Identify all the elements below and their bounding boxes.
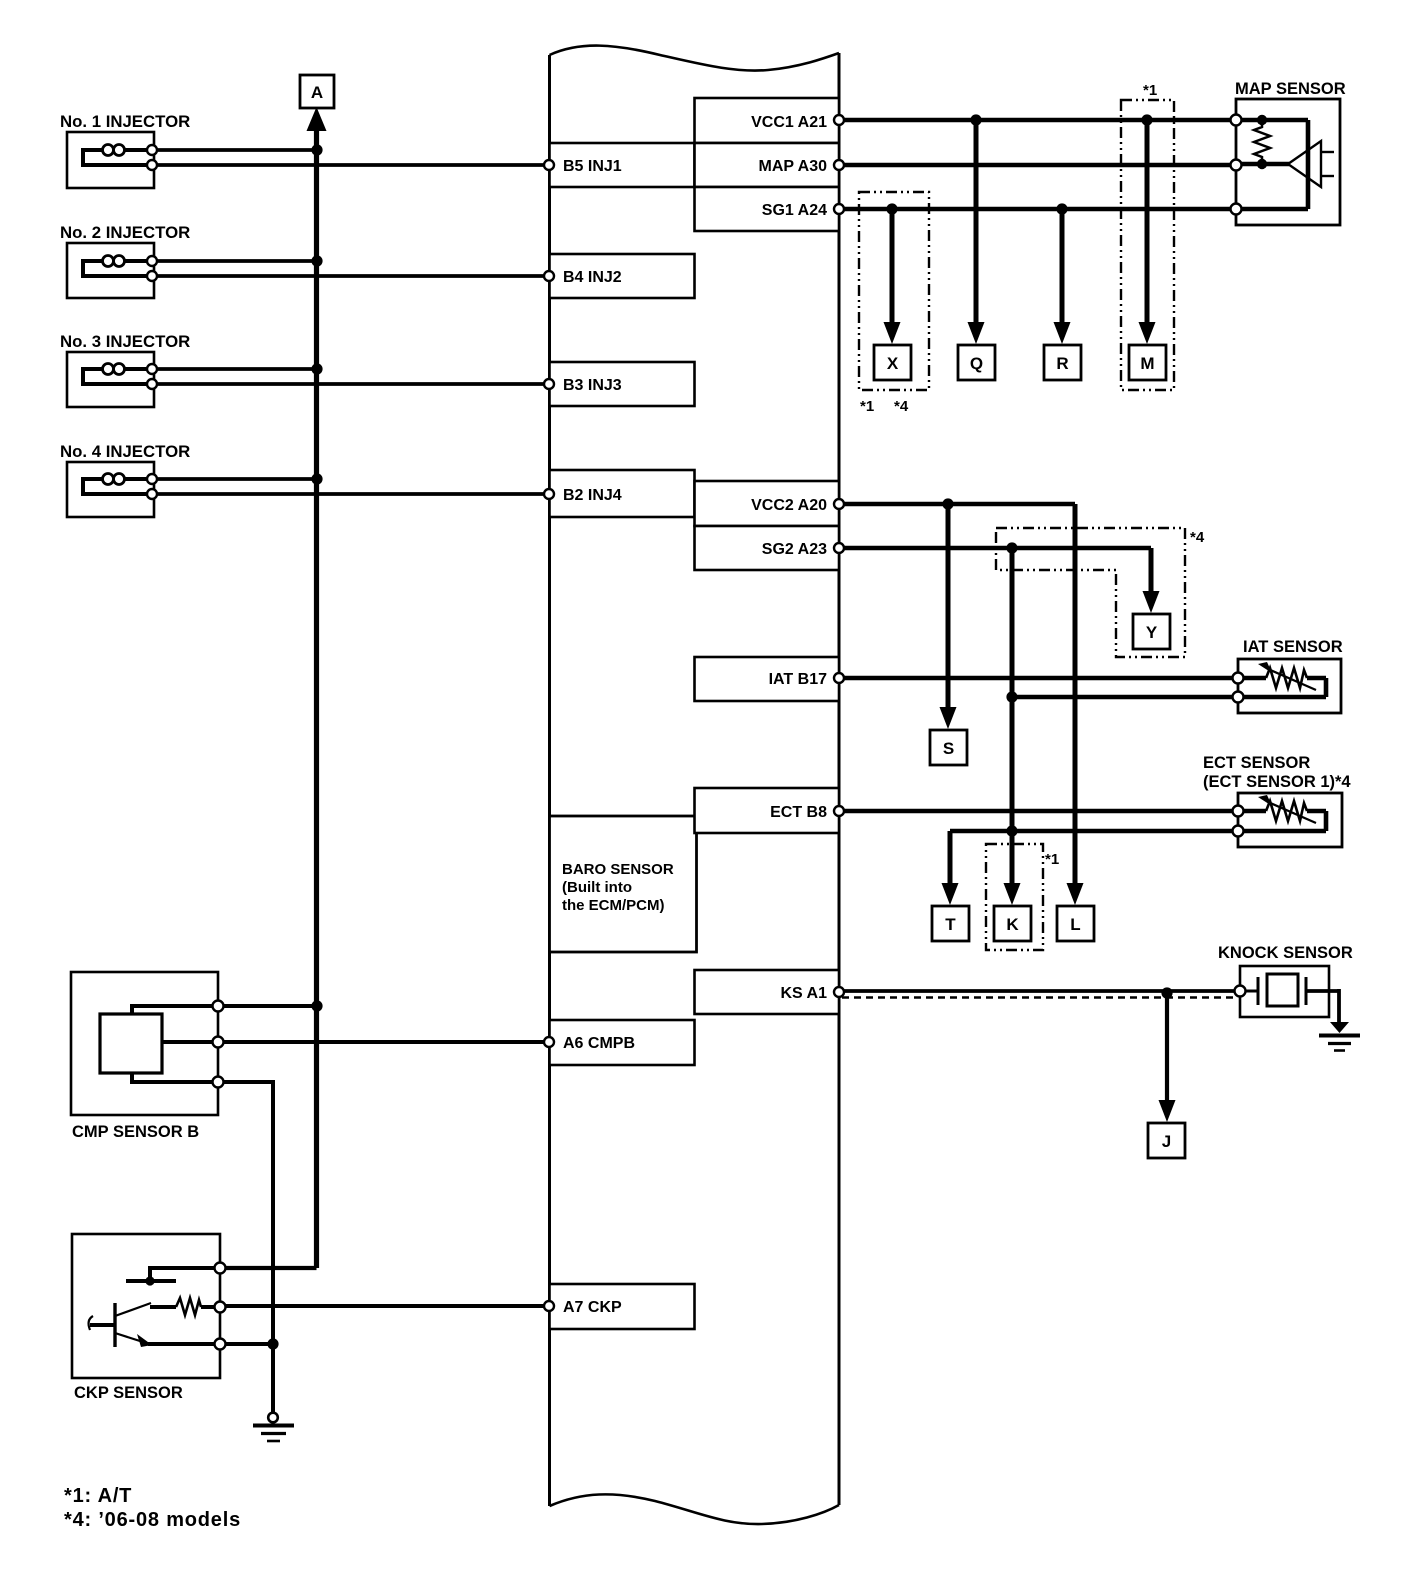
- pin ECT sensor bottom: [1233, 826, 1244, 837]
- wire ECT sensor return: [950, 829, 1238, 834]
- junction SG1 / R branch: [1056, 203, 1067, 214]
- pin injector 2 bottom: [147, 271, 157, 281]
- connector box B5 INJ1: [550, 143, 695, 187]
- injector 3: [67, 352, 154, 407]
- arrow into K: [1004, 883, 1021, 905]
- label *4 under X box: [894, 398, 909, 415]
- svg-text:*4: *4: [1190, 529, 1205, 546]
- wire IAT B17 to IAT sensor: [839, 676, 1238, 681]
- svg-text:J: J: [1162, 1132, 1171, 1151]
- pin SG2 A23: [834, 543, 844, 553]
- ground (knock sensor): [1319, 1022, 1360, 1051]
- junction A bus / injector 2: [311, 255, 322, 266]
- ECT sensor label: [1203, 754, 1351, 791]
- pin IAT sensor bottom: [1233, 692, 1244, 703]
- pin KS A1: [834, 987, 844, 997]
- pin CMP top: [213, 1001, 224, 1012]
- wire IAT sensor return to K branch: [1012, 695, 1238, 700]
- wire CMP bottom to ground line: [218, 1082, 273, 1344]
- svg-text:SG2 A23: SG2 A23: [762, 541, 827, 558]
- ECM/PCM band left edge: [548, 55, 551, 1506]
- svg-text:No. 2 INJECTOR: No. 2 INJECTOR: [60, 223, 190, 242]
- wire ground line to ground symbol: [271, 1344, 275, 1413]
- CKP SENSOR label: [74, 1384, 183, 1402]
- injector 4: [67, 462, 154, 517]
- IAT sensor: [1238, 659, 1341, 713]
- label *1 above M box: [1143, 82, 1157, 99]
- junction ECT return / K branch: [1006, 825, 1017, 836]
- svg-text:*1: *1: [1045, 851, 1059, 868]
- arrow into R: [1054, 322, 1071, 344]
- pin B2 INJ4: [544, 489, 554, 499]
- pin injector 2 top: [147, 256, 157, 266]
- junction SG2 / K branch: [1006, 542, 1017, 553]
- pin B3 INJ3: [544, 379, 554, 389]
- connector box IAT B17: [695, 657, 840, 701]
- svg-text:VCC2 A20: VCC2 A20: [751, 497, 827, 514]
- CMP SENSOR B label: [72, 1123, 199, 1141]
- wire SG2 A23 horizontal: [839, 546, 1151, 551]
- injector 4 label: [60, 442, 190, 461]
- pin CKP middle: [215, 1302, 226, 1313]
- wire M branch vertical: [1145, 120, 1150, 324]
- pin VCC2 A20: [834, 499, 844, 509]
- wire injector 3 top to node A: [152, 367, 318, 371]
- connector ref box X: [874, 345, 911, 380]
- junction A bus / CMP sensor wire: [311, 1000, 322, 1011]
- svg-text:K: K: [1006, 915, 1019, 934]
- injector 2 label: [60, 223, 190, 242]
- connector ref box L: [1057, 906, 1094, 941]
- wire injector 2 top to node A: [152, 259, 318, 263]
- arrow into X: [884, 322, 901, 344]
- MAP sensor: [1236, 99, 1340, 225]
- arrow into Y: [1143, 591, 1160, 613]
- connector box VCC2 A20: [695, 481, 840, 526]
- svg-text:R: R: [1056, 354, 1068, 373]
- label *4 right of dash-dot outline: [1190, 529, 1205, 546]
- wire Y branch vertical: [1149, 548, 1154, 592]
- svg-text:A6 CMPB: A6 CMPB: [563, 1035, 635, 1052]
- connector ref box Q: [958, 345, 995, 380]
- connector box B3 INJ3: [550, 362, 695, 406]
- arrow into S: [940, 707, 957, 729]
- dash-dot outline *4 around Y: [996, 528, 1185, 657]
- connector box MAP A30: [695, 143, 840, 187]
- wire L branch vertical: [1073, 504, 1078, 883]
- ECM/PCM band torn bottom edge: [550, 1494, 840, 1524]
- arrow into T: [942, 883, 959, 905]
- connector ref box A: [300, 75, 334, 108]
- wire CMP top to node A bus: [218, 1004, 317, 1008]
- svg-text:IAT B17: IAT B17: [769, 671, 827, 688]
- injector 1: [67, 132, 154, 188]
- wire injector 4 to B2 INJ4: [152, 492, 549, 496]
- pin A6 CMPB: [544, 1037, 554, 1047]
- ECM/PCM band torn top edge: [550, 46, 840, 71]
- note *1: A/T: [64, 1485, 132, 1507]
- svg-text:X: X: [887, 354, 899, 373]
- resistor in MAP sensor: [1254, 120, 1270, 164]
- svg-text:(Built into: (Built into: [562, 879, 632, 896]
- pin IAT sensor top: [1233, 673, 1244, 684]
- pin B4 INJ2: [544, 271, 554, 281]
- connector box SG2 A23: [695, 526, 840, 570]
- junction A bus / injector 1: [311, 144, 322, 155]
- pin MAP sensor MAP: [1231, 160, 1242, 171]
- svg-text:BARO SENSOR: BARO SENSOR: [562, 861, 674, 878]
- wire Q branch vertical: [974, 120, 979, 324]
- injector 3 label: [60, 332, 190, 351]
- pin MAP sensor VCC1: [1231, 115, 1242, 126]
- svg-text:*4: *4: [894, 398, 909, 415]
- junction A bus / injector 4: [311, 473, 322, 484]
- wire CKP middle to A7 CKP: [220, 1304, 549, 1308]
- pin SG1 A24: [834, 204, 844, 214]
- svg-text:VCC1 A21: VCC1 A21: [751, 114, 827, 131]
- wire injector 2 to B4 INJ2: [152, 274, 549, 278]
- svg-text:IAT SENSOR: IAT SENSOR: [1243, 638, 1343, 656]
- injector 2: [67, 243, 154, 298]
- pin CMP bottom: [213, 1077, 224, 1088]
- svg-text:B5 INJ1: B5 INJ1: [563, 158, 622, 175]
- pin CKP bottom: [215, 1339, 226, 1350]
- junction VCC1 / M branch: [1141, 114, 1152, 125]
- svg-text:B3 INJ3: B3 INJ3: [563, 377, 622, 394]
- svg-text:MAP A30: MAP A30: [759, 158, 828, 175]
- connector box A7 CKP: [550, 1284, 695, 1329]
- junction VCC1 / Q branch: [970, 114, 981, 125]
- pin ECT B8: [834, 806, 844, 816]
- junction MAP resistor bottom: [1257, 159, 1267, 169]
- CMP sensor B: [71, 972, 218, 1115]
- pin VCC1 A21: [834, 115, 844, 125]
- connector ref box K: [994, 906, 1031, 941]
- connector box B4 INJ2: [550, 254, 695, 298]
- wire CKP bottom to ground line: [220, 1342, 273, 1346]
- connector ref box R: [1044, 345, 1081, 380]
- ground (CKP circuit): [253, 1413, 294, 1441]
- svg-text:M: M: [1140, 354, 1154, 373]
- wire CMP middle to A6 CMPB: [218, 1040, 549, 1044]
- junction SG1 / X branch: [886, 203, 897, 214]
- svg-text:B4 INJ2: B4 INJ2: [563, 269, 622, 286]
- svg-text:*1: A/T: *1: A/T: [64, 1485, 132, 1507]
- svg-text:*4: ’06-08 models: *4: ’06-08 models: [64, 1509, 241, 1531]
- svg-text:B2 INJ4: B2 INJ4: [563, 487, 622, 504]
- wire T branch vertical: [948, 831, 953, 883]
- wire S branch vertical: [946, 504, 951, 709]
- svg-text:No. 1 INJECTOR: No. 1 INJECTOR: [60, 112, 190, 131]
- pin IAT B17: [834, 673, 844, 683]
- label *1 under X box: [860, 398, 874, 415]
- dash-dot box around K: [986, 844, 1043, 950]
- connector box SG1 A24: [695, 187, 840, 231]
- note *4: '06-08 models: [64, 1509, 241, 1531]
- svg-text:*1: *1: [1143, 82, 1157, 99]
- knock sensor: [1240, 966, 1339, 1017]
- wire injector 1 to B5 INJ1: [152, 163, 549, 167]
- svg-text:Y: Y: [1146, 623, 1158, 642]
- junction MAP resistor top: [1257, 115, 1267, 125]
- wire MAP A30 to MAP sensor: [839, 163, 1236, 168]
- svg-text:SG1 A24: SG1 A24: [762, 202, 827, 219]
- connector box A6 CMPB: [550, 1020, 695, 1065]
- CKP sensor: [72, 1234, 220, 1378]
- svg-text:(ECT SENSOR 1)*4: (ECT SENSOR 1)*4: [1203, 773, 1351, 791]
- label *1 beside K box: [1045, 851, 1059, 868]
- pin B5 INJ1: [544, 160, 554, 170]
- junction VCC2 / S branch: [942, 498, 953, 509]
- junction A bus / injector 3: [311, 363, 322, 374]
- svg-text:No. 4 INJECTOR: No. 4 INJECTOR: [60, 442, 190, 461]
- pin injector 1 top: [147, 145, 157, 155]
- pin CKP top: [215, 1263, 226, 1274]
- arrow up into A: [307, 107, 327, 131]
- ECT sensor: [1238, 793, 1342, 847]
- wire KS A1 to knock sensor (shielded, solid): [839, 989, 1240, 993]
- svg-text:L: L: [1070, 915, 1080, 934]
- pin MAP sensor SG1: [1231, 204, 1242, 215]
- dash-dot box around M branch: [1121, 100, 1174, 390]
- svg-text:T: T: [945, 915, 956, 934]
- pin A7 CKP: [544, 1301, 554, 1311]
- pin injector 3 top: [147, 364, 157, 374]
- pin injector 3 bottom: [147, 379, 157, 389]
- IAT sensor label: [1243, 638, 1343, 656]
- svg-text:ECT SENSOR: ECT SENSOR: [1203, 754, 1310, 772]
- junction KS wire / J branch: [1161, 987, 1172, 998]
- wire injector 4 top to node A: [152, 477, 318, 481]
- wire VCC1 A21 to MAP sensor: [839, 118, 1236, 123]
- connector ref box Y: [1133, 614, 1170, 649]
- svg-text:CMP SENSOR B: CMP SENSOR B: [72, 1123, 199, 1141]
- svg-text:A7 CKP: A7 CKP: [563, 1299, 622, 1316]
- wire node A vertical bus: [314, 126, 319, 1268]
- wire J branch vertical: [1165, 993, 1169, 1100]
- amplifier triangle in MAP sensor: [1288, 141, 1334, 187]
- wire R branch vertical: [1060, 209, 1065, 324]
- pin injector 4 top: [147, 474, 157, 484]
- svg-text:A: A: [311, 83, 323, 102]
- pin injector 1 bottom: [147, 160, 157, 170]
- connector ref box J: [1148, 1123, 1185, 1158]
- pin MAP A30: [834, 160, 844, 170]
- ECM/PCM band right edge: [838, 53, 841, 1505]
- arrow into M: [1139, 322, 1156, 344]
- dash-dot box around X branch: [859, 192, 929, 390]
- arrow into J: [1159, 1100, 1176, 1122]
- svg-text:MAP SENSOR: MAP SENSOR: [1235, 80, 1346, 98]
- wire X branch vertical: [890, 209, 895, 324]
- connector ref box T: [932, 906, 969, 941]
- wire injector 3 to B3 INJ3: [152, 382, 549, 386]
- wire ECT B8 to ECT sensor: [839, 809, 1238, 814]
- wire knock sensor to ground: [1337, 989, 1341, 1023]
- svg-text:CKP SENSOR: CKP SENSOR: [74, 1384, 183, 1402]
- wire VCC2 A20 horizontal: [839, 502, 1075, 507]
- wire SG1 A24 to MAP sensor: [839, 207, 1236, 212]
- svg-text:KS A1: KS A1: [780, 985, 827, 1002]
- arrow into L: [1067, 883, 1084, 905]
- injector 1 label: [60, 112, 190, 131]
- connector box KS A1: [695, 970, 840, 1014]
- pin injector 4 bottom: [147, 489, 157, 499]
- svg-text:ECT B8: ECT B8: [770, 804, 827, 821]
- arrow into Q: [968, 322, 985, 344]
- svg-text:the ECM/PCM): the ECM/PCM): [562, 897, 665, 914]
- BARO SENSOR box (built into ECM/PCM): [550, 816, 697, 952]
- svg-text:Q: Q: [970, 354, 983, 373]
- pin ECT sensor top: [1233, 806, 1244, 817]
- junction CKP bottom / ground line: [267, 1338, 278, 1349]
- connector box ECT B8: [695, 788, 840, 833]
- KNOCK SENSOR label: [1218, 944, 1353, 962]
- svg-text:*1: *1: [860, 398, 874, 415]
- MAP sensor label: [1235, 80, 1346, 98]
- connector ref box S: [930, 730, 967, 765]
- wire K branch vertical: [1010, 548, 1015, 883]
- pin knock sensor: [1235, 986, 1246, 997]
- junction IAT return / K branch: [1006, 691, 1017, 702]
- connector ref box M: [1129, 345, 1166, 380]
- pin CMP middle: [213, 1037, 224, 1048]
- wire KS A1 shield (dashed): [842, 996, 1236, 999]
- connector box B2 INJ4: [550, 470, 695, 517]
- connector box VCC1 A21: [695, 98, 840, 143]
- svg-text:No. 3 INJECTOR: No. 3 INJECTOR: [60, 332, 190, 351]
- svg-text:S: S: [943, 739, 954, 758]
- wire injector 1 top to node A: [152, 148, 318, 152]
- wire A bus corner to CKP top wire: [220, 1266, 317, 1270]
- svg-text:KNOCK SENSOR: KNOCK SENSOR: [1218, 944, 1353, 962]
